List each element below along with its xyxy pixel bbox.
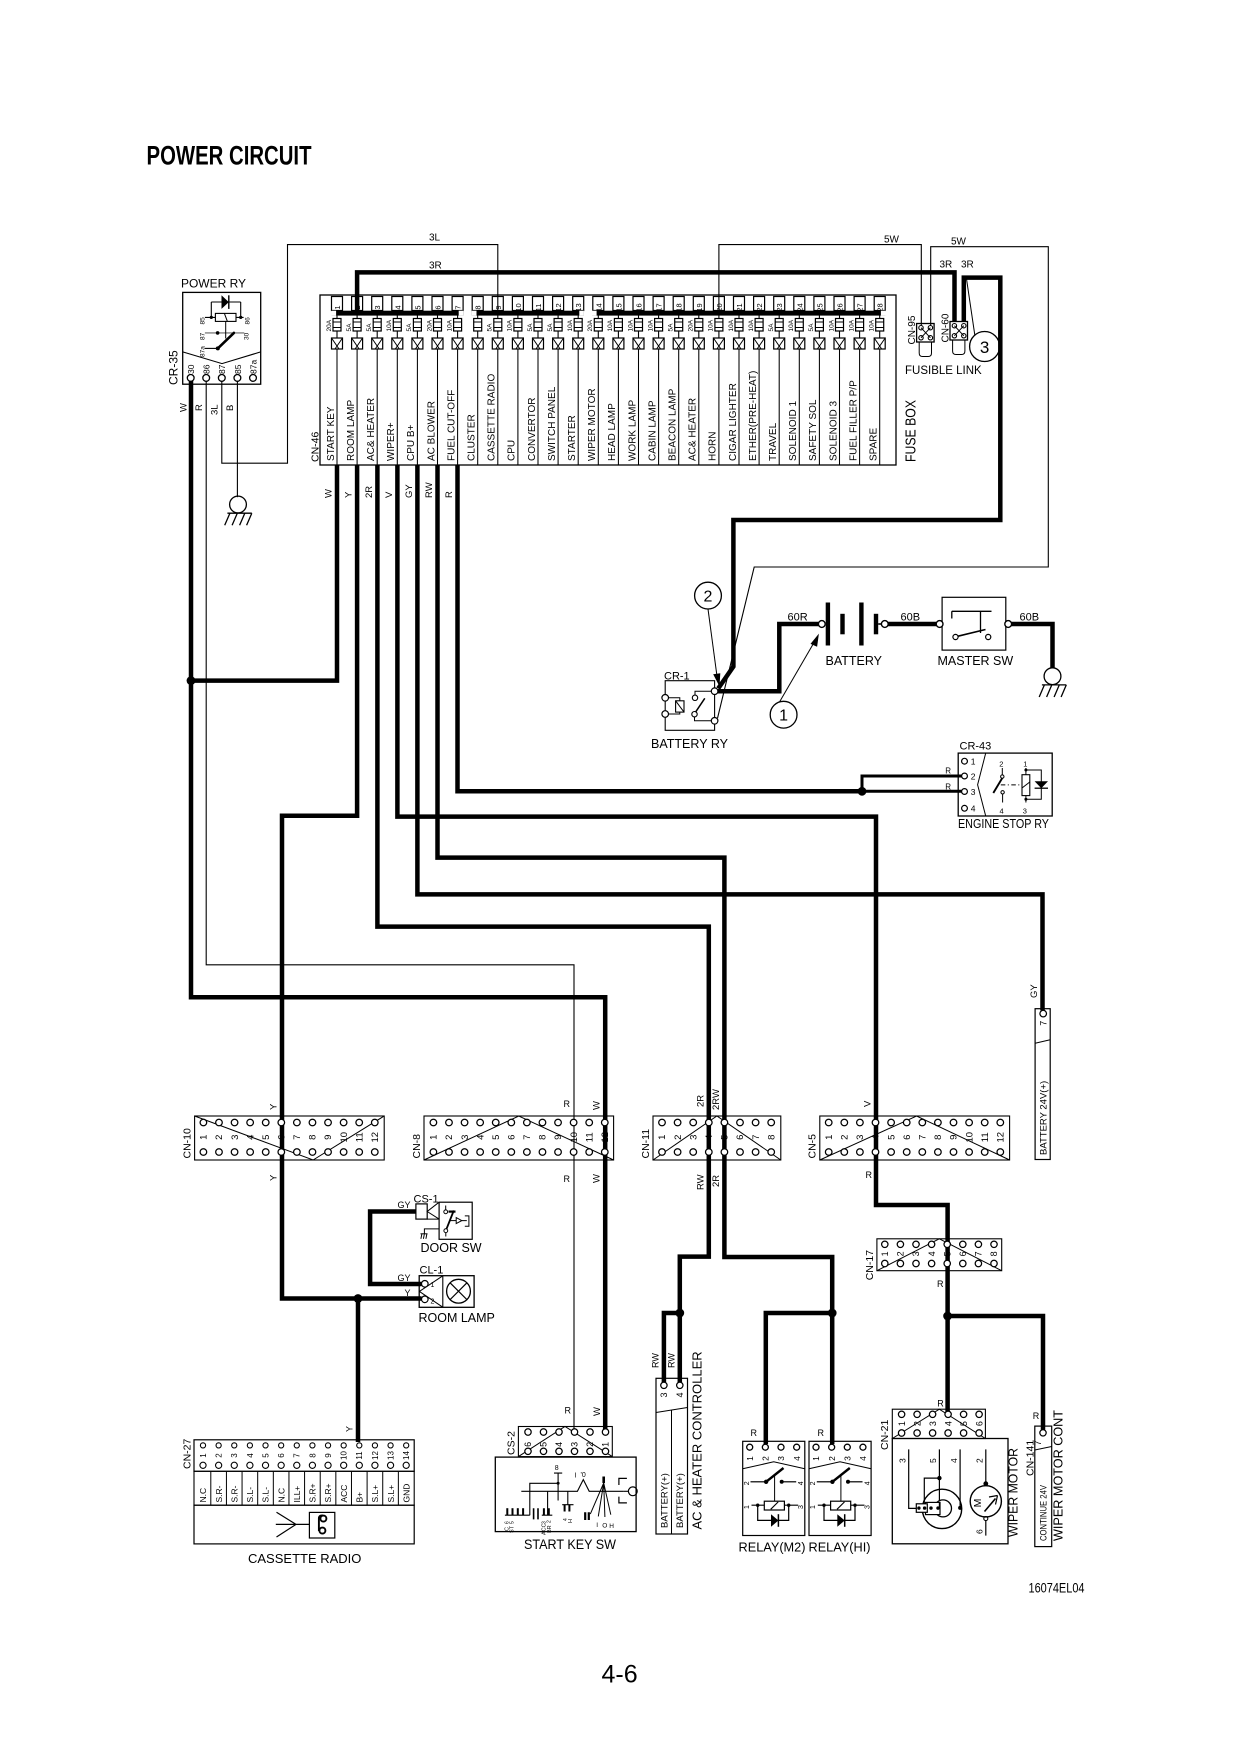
svg-text:1: 1 <box>897 1421 907 1426</box>
wire 3R from fusible link CN-60 right pin to battery relay CR-1 contact <box>718 278 1000 689</box>
svg-text:3: 3 <box>855 1135 866 1140</box>
wire R branch to relay M2 pin 2 <box>766 1313 832 1444</box>
svg-text:1: 1 <box>824 1135 835 1140</box>
connector CN-21 <box>879 1409 985 1450</box>
svg-text:2: 2 <box>999 760 1003 769</box>
svg-text:CPU B+: CPU B+ <box>406 424 417 461</box>
svg-text:12: 12 <box>996 1132 1007 1143</box>
svg-text:4: 4 <box>949 1458 959 1463</box>
svg-text:N.C: N.C <box>198 1488 208 1503</box>
svg-text:2: 2 <box>761 1456 771 1461</box>
svg-text:4: 4 <box>792 1456 802 1461</box>
power relay CR-35 box <box>183 292 261 384</box>
svg-text:2R: 2R <box>364 486 375 498</box>
svg-text:RW: RW <box>650 1353 660 1368</box>
fuse slot 9 CASSETTE RADIO 5A <box>487 297 504 466</box>
master switch terminal right <box>1005 621 1012 628</box>
wire R from power relay CR-35 pin 86 through CN-8 pin 10 to start key switch CS-2 pin 3 <box>206 381 574 1430</box>
svg-text:4-6: 4-6 <box>602 1661 638 1689</box>
svg-text:2: 2 <box>215 1453 224 1458</box>
svg-text:3R: 3R <box>429 261 442 272</box>
svg-text:10A: 10A <box>788 319 795 331</box>
wire 3L from power relay CR-35 pin 87 to fuse bus 2 at slot 9 <box>222 245 498 464</box>
svg-text:1: 1 <box>971 757 976 767</box>
svg-text:1: 1 <box>601 1442 611 1447</box>
svg-text:86: 86 <box>202 364 212 374</box>
svg-text:4: 4 <box>675 1392 685 1397</box>
svg-text:5: 5 <box>413 305 422 309</box>
callout 3 pointer line <box>966 278 974 335</box>
svg-text:5A: 5A <box>406 323 413 332</box>
svg-text:2: 2 <box>673 1135 684 1140</box>
svg-text:7: 7 <box>918 1135 929 1140</box>
svg-text:10: 10 <box>514 303 523 311</box>
svg-text:30: 30 <box>244 332 251 340</box>
svg-text:W: W <box>324 489 335 498</box>
svg-text:6: 6 <box>507 1135 518 1140</box>
svg-text:FUSE BOX: FUSE BOX <box>903 400 920 462</box>
svg-text:DOOR SW: DOOR SW <box>421 1241 482 1255</box>
svg-text:3: 3 <box>864 1505 871 1509</box>
svg-text:RELAY(M2): RELAY(M2) <box>739 1540 806 1555</box>
connector CN-8 <box>411 1116 614 1160</box>
junction R wire at wiper relays <box>828 1309 837 1318</box>
svg-text:ENGINE STOP RY: ENGINE STOP RY <box>958 817 1050 831</box>
callout circle 2 <box>695 582 722 609</box>
connector CN-11 <box>640 1116 781 1160</box>
svg-text:CR-35: CR-35 <box>167 350 181 385</box>
svg-text:10: 10 <box>964 1132 975 1143</box>
svg-text:BATTERY 24V(+): BATTERY 24V(+) <box>1039 1081 1050 1155</box>
relay HI <box>809 1441 871 1535</box>
ground symbol for power relay <box>230 496 247 513</box>
svg-text:CN-141: CN-141 <box>1024 1440 1036 1476</box>
svg-text:3: 3 <box>570 1442 580 1447</box>
svg-text:2: 2 <box>585 1442 595 1447</box>
wire W from power relay CR-35 pin 30 through CN-8 pin 12 to start key switch CS-2 pin 1 <box>191 381 605 1430</box>
svg-text:11: 11 <box>354 1132 365 1142</box>
svg-text:8: 8 <box>308 1135 319 1140</box>
svg-text:24: 24 <box>795 303 804 311</box>
fuse slot 15 HEAD LAMP 10A <box>607 297 624 466</box>
svg-text:V: V <box>863 1100 874 1107</box>
fuse slot 23 TRAVEL 5A <box>768 297 785 466</box>
svg-text:RW: RW <box>424 482 435 498</box>
svg-text:10A: 10A <box>446 319 453 331</box>
relay CR-1 terminals <box>662 695 669 702</box>
svg-text:2: 2 <box>840 1135 851 1140</box>
svg-text:87a: 87a <box>248 360 258 374</box>
svg-text:R: R <box>564 1099 571 1109</box>
connector CN-5 <box>807 1116 1010 1160</box>
svg-text:5A: 5A <box>487 323 494 332</box>
svg-text:5: 5 <box>942 1251 952 1256</box>
svg-text:RW: RW <box>666 1353 676 1368</box>
svg-text:10A: 10A <box>869 319 876 331</box>
svg-text:2R: 2R <box>695 1095 706 1107</box>
svg-text:CN-5: CN-5 <box>807 1134 819 1159</box>
svg-text:4: 4 <box>858 1456 868 1461</box>
svg-text:CASSETTE RADIO: CASSETTE RADIO <box>248 1551 361 1566</box>
svg-text:W: W <box>592 1101 603 1110</box>
fuse slot 14 WIPER MOTOR 20A <box>587 297 604 466</box>
svg-text:5A: 5A <box>768 323 775 332</box>
svg-text:SOLENOID 3: SOLENOID 3 <box>828 401 839 461</box>
svg-text:1: 1 <box>199 1453 208 1458</box>
svg-text:4: 4 <box>971 804 976 814</box>
fuse slot 10 CPU 10A <box>507 297 524 466</box>
fuse slot 18 BEACON LAMP 5A <box>668 297 685 466</box>
svg-text:1: 1 <box>333 305 342 309</box>
svg-text:4: 4 <box>864 1481 871 1485</box>
svg-text:MASTER SW: MASTER SW <box>938 654 1014 668</box>
svg-text:GY: GY <box>397 1200 410 1210</box>
svg-text:6: 6 <box>975 1529 985 1534</box>
svg-text:3L: 3L <box>209 404 220 415</box>
svg-text:6: 6 <box>523 1442 533 1447</box>
wire GY room lamp loop from door switch CS-1 to room lamp CL-1 pin 1 <box>370 1212 422 1285</box>
wire R from fuse slot 7 to engine stop relay junction <box>458 465 863 791</box>
svg-text:2: 2 <box>827 1456 837 1461</box>
svg-text:Y: Y <box>269 1174 280 1181</box>
svg-text:O: O <box>602 1523 607 1530</box>
svg-text:BATTERY(+): BATTERY(+) <box>675 1473 686 1528</box>
fuse slot 26 SOLENOID 3 10A <box>828 297 845 466</box>
fuse slot 6 AC BLOWER 20A <box>426 297 443 466</box>
svg-text:3R: 3R <box>961 260 974 271</box>
svg-text:5A: 5A <box>547 323 554 332</box>
battery symbol <box>826 603 830 646</box>
wire V from fuse slot 4 through CN-5 pin 4 and CN-17 pin 5 to wiper motor CN-21 pin 4 <box>397 465 947 1412</box>
svg-text:AC& HEATER: AC& HEATER <box>366 398 377 461</box>
svg-text:FUEL FILLER P/P: FUEL FILLER P/P <box>848 380 859 461</box>
wire B from power relay CR-35 pin 85 to ground <box>236 381 238 497</box>
svg-text:5A: 5A <box>527 323 534 332</box>
svg-text:18: 18 <box>675 303 684 311</box>
svg-text:5A: 5A <box>366 323 373 332</box>
svg-text:5: 5 <box>928 1458 938 1463</box>
relay CR-35 switch arm <box>225 321 227 338</box>
svg-text:5: 5 <box>261 1135 272 1140</box>
svg-text:19: 19 <box>695 303 704 311</box>
svg-text:3: 3 <box>911 1251 921 1256</box>
svg-text:7: 7 <box>454 305 463 309</box>
svg-text:CN-8: CN-8 <box>411 1134 423 1159</box>
svg-text:5: 5 <box>491 1135 502 1140</box>
svg-text:AC BLOWER: AC BLOWER <box>426 401 437 461</box>
svg-text:3: 3 <box>688 1135 699 1140</box>
svg-text:R: R <box>945 767 951 776</box>
svg-text:14: 14 <box>594 303 603 311</box>
fuse slot 22 ETHER(PRE-HEAT) 10A <box>748 297 765 466</box>
wire Y from fuse slot 2 through CN-10 pin 6 to room lamp CL-1 pin 2 <box>282 465 422 1299</box>
svg-text:1: 1 <box>779 708 788 725</box>
wire 5W from fusible link CN-95 right pins to battery relay CR-1 coil <box>718 247 1049 719</box>
fuse slot 12 SWITCH PANEL 5A <box>547 297 564 466</box>
svg-text:3: 3 <box>230 1453 239 1458</box>
svg-text:START KEY SW: START KEY SW <box>524 1537 616 1552</box>
svg-text:2: 2 <box>810 1481 817 1485</box>
svg-text:SAFETY SOL: SAFETY SOL <box>808 399 819 461</box>
fuse slot 7 FUEL CUT-OFF 10A <box>446 297 463 466</box>
svg-text:ROOM LAMP: ROOM LAMP <box>346 400 357 461</box>
svg-text:ETHER(PRE-HEAT): ETHER(PRE-HEAT) <box>748 371 759 461</box>
svg-text:20A: 20A <box>326 319 333 331</box>
wire 3R bus from fuse slot 2 to fusible link CN-60 left pin <box>357 272 954 322</box>
svg-text:CN-10: CN-10 <box>182 1128 194 1159</box>
svg-text:3: 3 <box>1023 807 1027 816</box>
svg-text:11: 11 <box>980 1132 991 1142</box>
start key switch body <box>495 1457 637 1535</box>
svg-text:11: 11 <box>355 1451 364 1460</box>
svg-text:10A: 10A <box>708 319 715 331</box>
svg-text:2: 2 <box>971 771 976 781</box>
svg-text:9: 9 <box>494 305 503 309</box>
svg-text:R: R <box>937 1279 944 1289</box>
svg-text:W: W <box>179 403 190 412</box>
svg-text:3: 3 <box>373 305 382 309</box>
svg-text:BATTERY: BATTERY <box>826 654 883 668</box>
svg-text:1: 1 <box>745 1456 755 1461</box>
svg-text:3: 3 <box>659 1392 669 1397</box>
svg-text:2: 2 <box>431 1299 435 1306</box>
svg-text:S.R+: S.R+ <box>308 1483 318 1502</box>
svg-text:I: I <box>596 1522 598 1529</box>
svg-text:7: 7 <box>751 1135 762 1140</box>
svg-text:4: 4 <box>927 1251 937 1256</box>
svg-text:14: 14 <box>402 1451 411 1460</box>
fuse slot 20 HORN 10A <box>708 297 725 466</box>
svg-text:2: 2 <box>353 305 362 309</box>
fuse slot 28 SPARE 10A <box>869 297 886 466</box>
engine stop relay CR-43 box <box>958 753 1052 816</box>
svg-text:I: I <box>575 1473 577 1480</box>
junction W wire <box>187 676 196 685</box>
svg-text:Y: Y <box>404 1288 410 1298</box>
svg-text:3: 3 <box>980 338 989 357</box>
svg-text:ST: ST <box>510 1525 516 1533</box>
svg-text:20A: 20A <box>587 319 594 331</box>
svg-text:10A: 10A <box>607 319 614 331</box>
svg-text:1: 1 <box>811 1456 821 1461</box>
svg-text:6: 6 <box>434 305 443 309</box>
svg-text:POWER CIRCUIT: POWER CIRCUIT <box>147 141 312 171</box>
svg-text:6: 6 <box>277 1453 286 1458</box>
master switch box <box>942 597 1006 650</box>
wire 60B master switch to ground <box>1011 624 1052 668</box>
svg-text:6: 6 <box>735 1135 746 1140</box>
wire Y branch to cassette radio CN-27 pin 11 <box>356 1299 361 1443</box>
svg-text:SOLENOID 1: SOLENOID 1 <box>788 401 799 461</box>
svg-text:4: 4 <box>246 1453 255 1458</box>
svg-text:13: 13 <box>386 1451 395 1460</box>
svg-text:WORK LAMP: WORK LAMP <box>627 400 638 461</box>
svg-text:20: 20 <box>715 303 724 311</box>
svg-text:B+: B+ <box>355 1492 365 1503</box>
svg-text:TRAVEL: TRAVEL <box>768 422 779 461</box>
door switch CS-1 <box>414 1194 473 1240</box>
svg-text:23: 23 <box>775 303 784 311</box>
fusible link CN-60 <box>941 313 968 354</box>
svg-text:10: 10 <box>340 1451 349 1460</box>
svg-text:CR-1: CR-1 <box>664 671 690 683</box>
fuse slot 1 START KEY 20A <box>326 297 343 466</box>
svg-text:4: 4 <box>704 1135 715 1140</box>
svg-text:5A: 5A <box>668 323 675 332</box>
svg-text:V: V <box>384 491 395 498</box>
svg-text:1: 1 <box>810 1505 817 1509</box>
svg-text:CABIN LAMP: CABIN LAMP <box>647 400 658 461</box>
relay CR-35 pins 30 86 87 85 87a <box>187 375 194 382</box>
svg-text:FUEL CUT-OFF: FUEL CUT-OFF <box>446 390 457 461</box>
relay CR-35 diode <box>211 301 240 303</box>
svg-text:10: 10 <box>339 1132 350 1143</box>
callout circle 3 <box>970 332 1000 362</box>
svg-text:11: 11 <box>534 304 543 312</box>
wire 60B battery to master switch <box>888 622 936 627</box>
svg-text:25: 25 <box>815 303 824 311</box>
svg-text:2RW: 2RW <box>711 1089 722 1110</box>
svg-text:CN-17: CN-17 <box>864 1250 876 1281</box>
master switch contacts <box>953 634 958 639</box>
svg-text:1: 1 <box>657 1135 668 1140</box>
svg-text:16074EL04: 16074EL04 <box>1029 1581 1085 1596</box>
svg-text:WIPER MOTOR CONT: WIPER MOTOR CONT <box>1051 1410 1066 1541</box>
connector battery 24V plus <box>1035 1009 1050 1160</box>
relay CR-43 chevron <box>978 753 986 816</box>
svg-text:CPU: CPU <box>507 440 518 461</box>
svg-text:6: 6 <box>277 1135 288 1140</box>
fuse slot 21 CIGAR LIGHTER 10A <box>728 297 745 466</box>
svg-text:CASSETTE RADIO: CASSETTE RADIO <box>487 374 498 461</box>
svg-text:1: 1 <box>431 1282 435 1289</box>
svg-text:CN-46: CN-46 <box>310 431 322 462</box>
svg-text:H: H <box>609 1523 614 1530</box>
relay CR-35 chevron divider <box>183 352 261 364</box>
svg-text:ACC: ACC <box>339 1485 349 1503</box>
svg-text:S.R-: S.R- <box>229 1485 239 1502</box>
svg-text:M: M <box>972 1499 984 1508</box>
svg-text:BATTERY(+): BATTERY(+) <box>659 1473 670 1528</box>
svg-text:26: 26 <box>836 303 845 311</box>
svg-text:16: 16 <box>635 303 644 311</box>
fuse slot 27 FUEL FILLER P/P 10A <box>848 297 865 466</box>
fuse slot 25 SAFETY SOL 5A <box>808 297 825 466</box>
svg-text:8: 8 <box>474 305 483 309</box>
svg-text:3R: 3R <box>940 260 953 271</box>
svg-text:2: 2 <box>547 1520 553 1523</box>
wire R to engine stop relay CR-43 pin 3 <box>862 790 962 793</box>
connector CN-141 <box>1024 1426 1051 1547</box>
wire 5W from fuse bus 3 at slot 20 to fusible link CN-95 left pins <box>719 245 921 326</box>
wire RW from fuse slot 6 through CN-11 pin 5 to relay HI pin 2 <box>438 465 833 1444</box>
svg-text:10A: 10A <box>828 319 835 331</box>
svg-text:4: 4 <box>245 1135 256 1140</box>
relay CR-35 coil <box>211 302 240 317</box>
svg-text:30: 30 <box>186 364 196 374</box>
svg-text:3: 3 <box>776 1456 786 1461</box>
AC heater controller connector <box>656 1378 688 1534</box>
wire 2R from fuse slot 3 through CN-11 pin 4 to AC heater controller pin 4 <box>377 465 708 1382</box>
svg-text:20A: 20A <box>426 319 433 331</box>
svg-text:CLUSTER: CLUSTER <box>467 414 478 461</box>
svg-text:B: B <box>225 405 236 411</box>
junction RW wire at AC heater controller <box>675 1309 684 1318</box>
svg-text:9: 9 <box>324 1453 333 1458</box>
svg-text:R: R <box>866 1170 873 1180</box>
svg-text:R: R <box>818 1428 825 1438</box>
svg-text:10A: 10A <box>627 319 634 331</box>
svg-text:N.C: N.C <box>276 1488 286 1503</box>
svg-text:5A: 5A <box>346 323 353 332</box>
relay CR-35 contact line 87-30 <box>205 332 244 334</box>
master switch terminal left <box>936 621 943 628</box>
svg-text:3: 3 <box>230 1135 241 1140</box>
svg-text:POWER RY: POWER RY <box>181 277 246 291</box>
svg-text:BATTERY RY: BATTERY RY <box>651 737 729 751</box>
fuse slot 11 CONVERTOR 5A <box>527 297 544 466</box>
svg-text:5: 5 <box>261 1453 270 1458</box>
svg-text:87a: 87a <box>200 346 207 357</box>
svg-text:87: 87 <box>200 332 207 340</box>
svg-text:RW: RW <box>695 1174 706 1190</box>
svg-text:10A: 10A <box>567 319 574 331</box>
svg-text:85: 85 <box>233 364 243 374</box>
svg-text:CIGAR LIGHTER: CIGAR LIGHTER <box>728 383 739 461</box>
svg-text:8: 8 <box>933 1135 944 1140</box>
fuse bus bar slots 1-7 <box>332 311 464 316</box>
svg-text:5A: 5A <box>808 323 815 332</box>
wire R to engine stop relay CR-43 pin 2 <box>862 776 962 791</box>
svg-text:CN-95: CN-95 <box>907 315 918 344</box>
svg-text:R: R <box>444 491 455 498</box>
callout 2 pointer arrow <box>708 609 717 676</box>
svg-text:3: 3 <box>843 1456 853 1461</box>
svg-text:Y: Y <box>269 1103 280 1110</box>
svg-text:2R: 2R <box>711 1175 722 1187</box>
svg-text:R: R <box>937 1399 944 1409</box>
fuse slot 19 AC& HEATER 20A <box>688 297 705 466</box>
svg-text:12: 12 <box>554 303 563 311</box>
svg-text:S.L+: S.L+ <box>386 1485 396 1503</box>
svg-text:8: 8 <box>308 1453 317 1458</box>
svg-text:BEACON LAMP: BEACON LAMP <box>668 388 679 461</box>
svg-text:5W: 5W <box>884 235 900 246</box>
fuse slot 4 WIPER+ 10A <box>386 297 403 466</box>
svg-text:85: 85 <box>200 317 207 325</box>
svg-text:ROOM LAMP: ROOM LAMP <box>419 1311 495 1325</box>
relay CR-1 coil <box>676 701 684 712</box>
svg-text:GND: GND <box>401 1484 411 1503</box>
wire RW branch to AC heater controller pin 3 <box>664 1313 680 1382</box>
svg-text:2: 2 <box>444 1135 455 1140</box>
svg-text:7: 7 <box>293 1453 302 1458</box>
svg-text:S.R+: S.R+ <box>323 1483 333 1502</box>
svg-text:5: 5 <box>959 1421 969 1426</box>
svg-text:20A: 20A <box>688 319 695 331</box>
junction R wire at wiper motor controller branch <box>943 1312 952 1321</box>
svg-text:28: 28 <box>876 303 885 311</box>
svg-text:2: 2 <box>744 1481 751 1485</box>
svg-text:CN-21: CN-21 <box>879 1419 891 1450</box>
svg-text:10: 10 <box>569 1132 580 1143</box>
svg-text:1: 1 <box>880 1251 890 1256</box>
relay CR-43 pins 1-4 <box>962 758 968 764</box>
svg-text:CN-60: CN-60 <box>941 313 952 342</box>
relay CR-43 coil <box>1022 775 1030 796</box>
svg-text:11: 11 <box>584 1132 595 1142</box>
svg-text:9: 9 <box>949 1135 960 1140</box>
